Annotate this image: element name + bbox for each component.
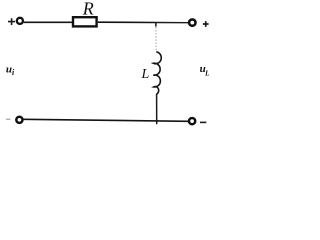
terminal top-right [189,19,195,25]
terminal bottom-left [16,117,22,123]
minus sign bottom-left [6,118,10,120]
wire bottom [24,119,189,121]
minus sign bottom-right [200,121,206,123]
wire inductor to bottom wire [156,94,158,124]
terminal bottom-right [189,118,195,124]
resistor R1 body [73,17,97,26]
svg-text:ui: ui [6,63,15,77]
node A junction stub [155,22,157,26]
wire top-left to resistor [24,21,72,23]
inductor L1 coil [153,52,161,94]
svg-text:uL: uL [200,63,210,77]
wire node A to right terminal [156,22,188,24]
terminal top-left [17,18,23,24]
svg-text:L: L [141,67,150,82]
wire resistor to node A [98,21,156,23]
wire node A to inductor (faint dotted) [155,27,157,51]
plus sign top-right [203,21,209,27]
svg-text:R: R [82,0,94,18]
plus sign top-left [8,18,15,25]
